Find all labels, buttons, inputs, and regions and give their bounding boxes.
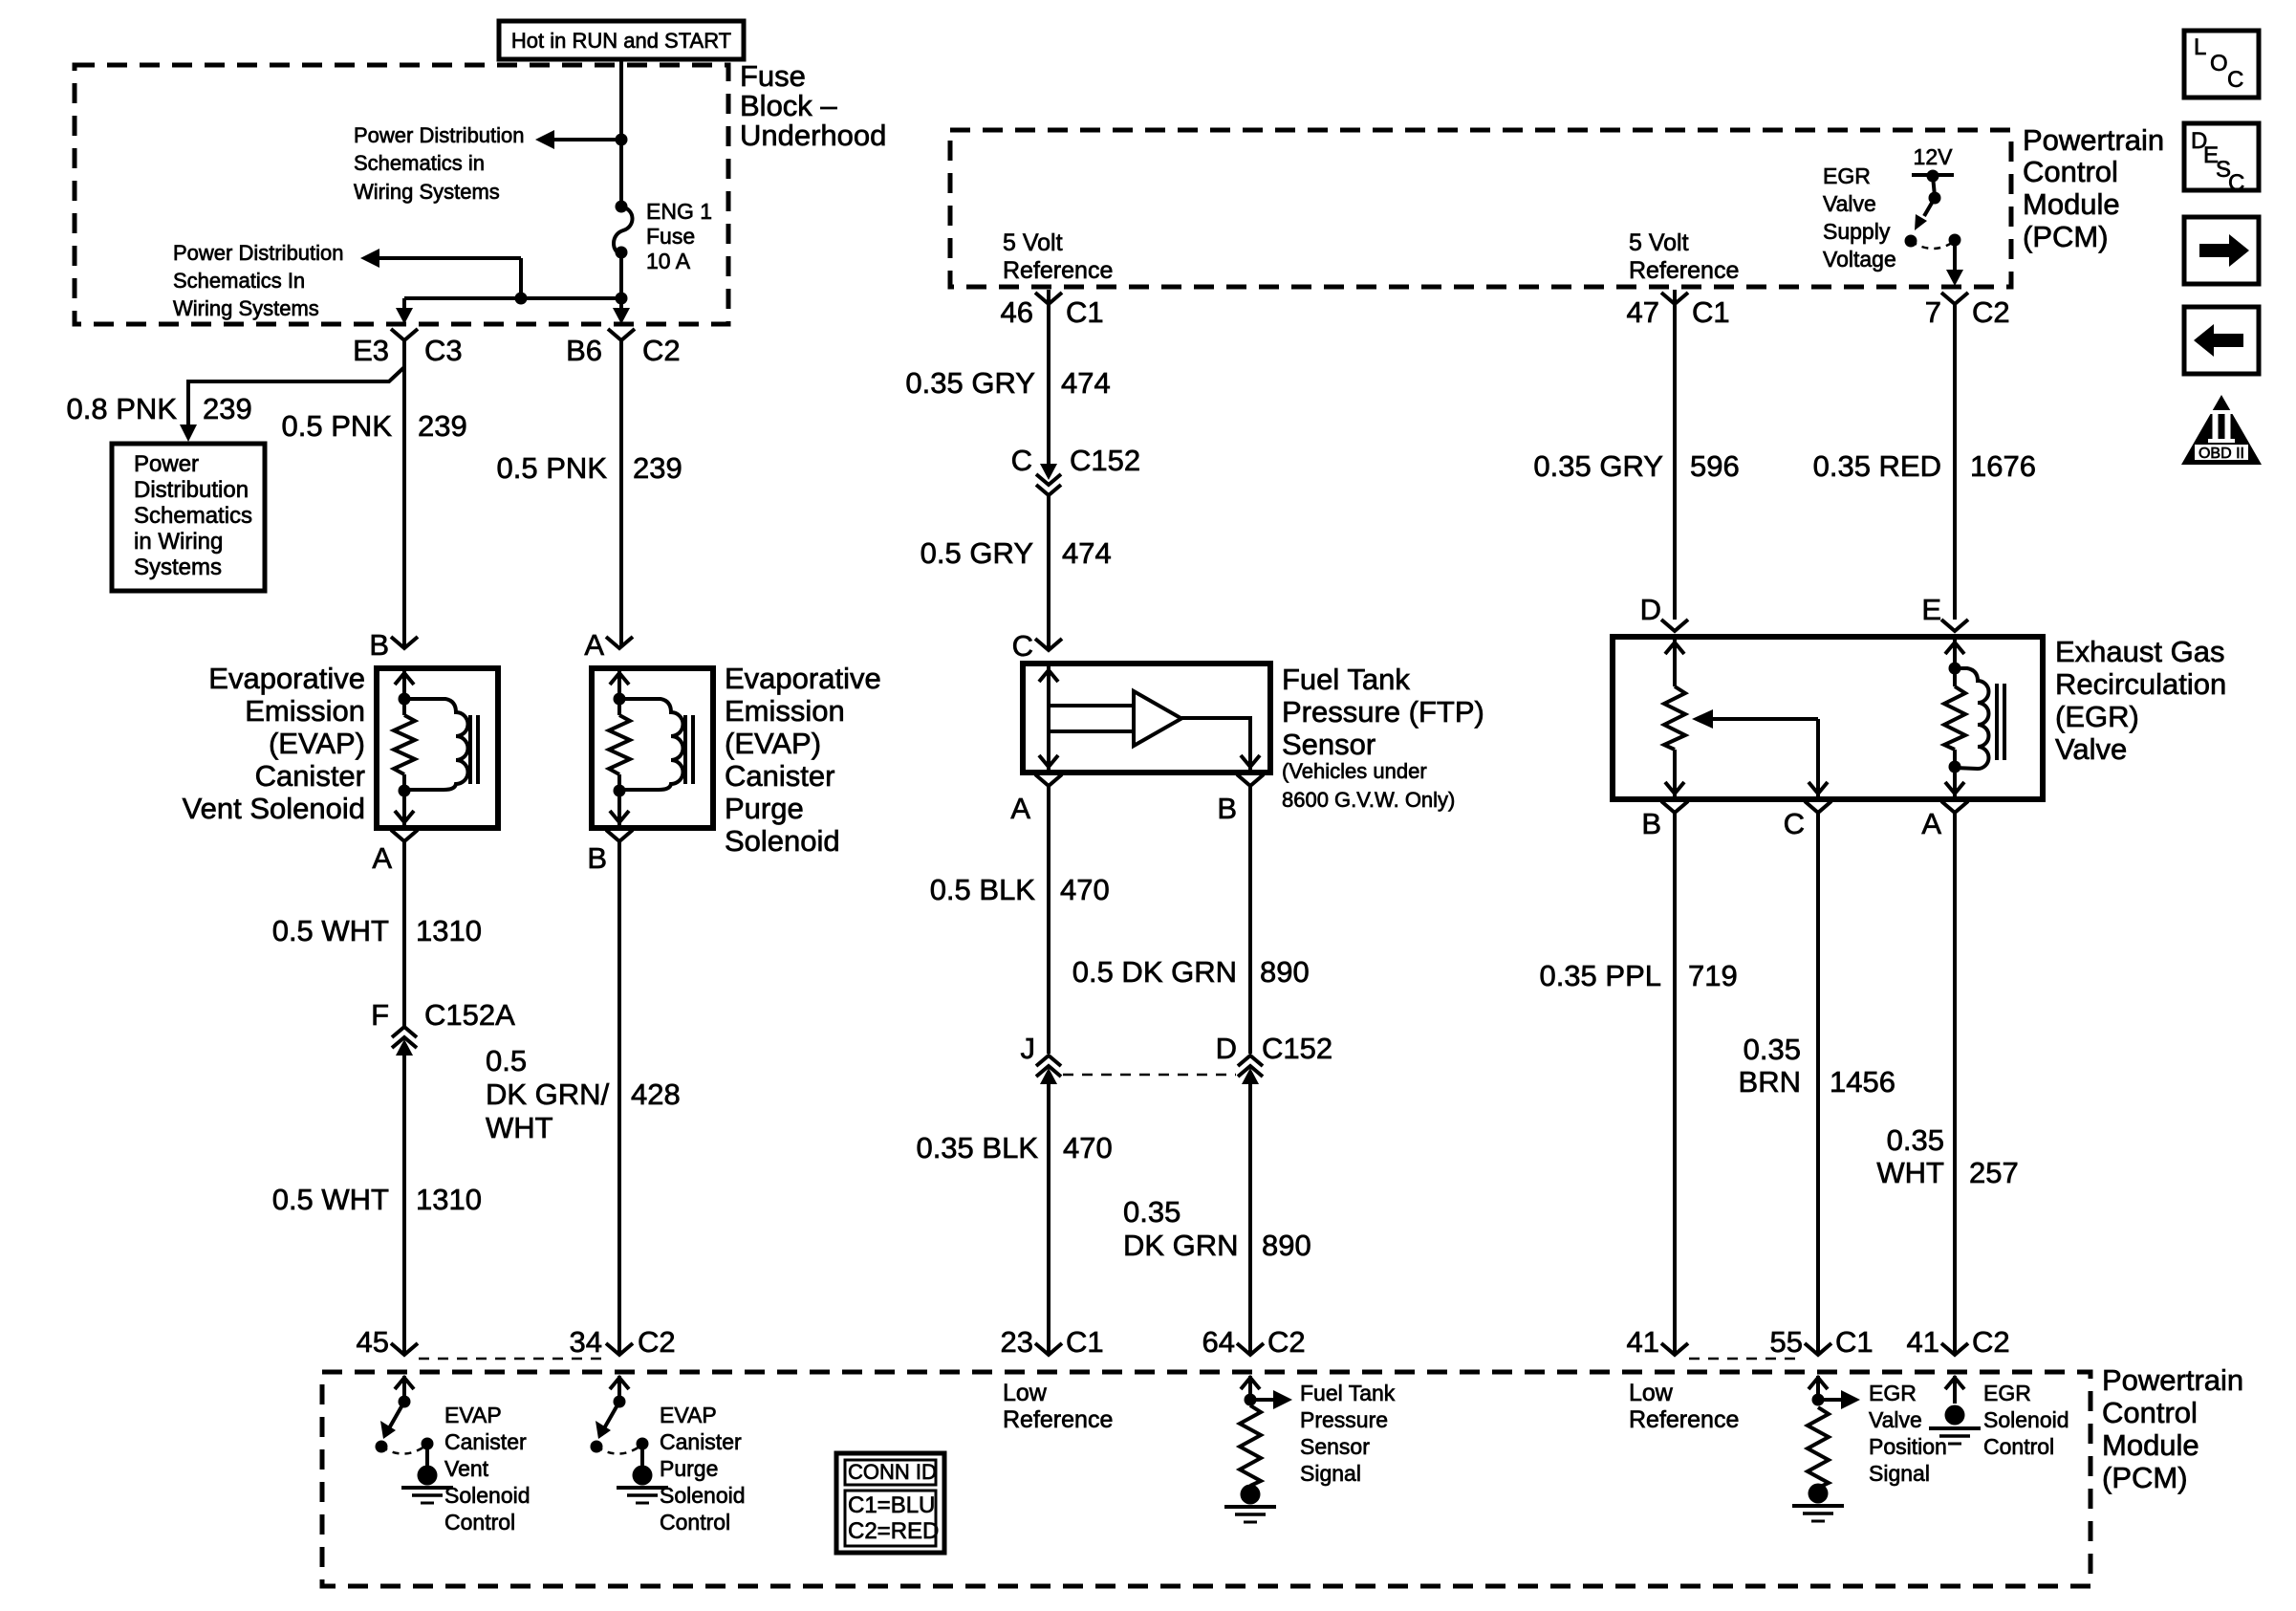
svg-text:1310: 1310 [416,1183,482,1216]
svg-text:Vent Solenoid: Vent Solenoid [183,792,365,825]
svg-text:C1: C1 [1692,295,1730,329]
svg-text:Distribution: Distribution [134,477,249,503]
svg-text:(PCM): (PCM) [2102,1461,2188,1494]
svg-text:C1: C1 [1835,1325,1874,1359]
wire 890 lower [1248,1078,1252,1355]
potentiometer EGR position [1664,637,1685,799]
svg-text:B6: B6 [566,334,602,367]
icon LOC [2184,31,2259,98]
svg-text:Schematics in: Schematics in [354,151,485,175]
svg-text:596: 596 [1690,449,1740,483]
component label Powertrain Control Module (PCM) bottom [2102,1363,2243,1494]
svg-text:E: E [1921,593,1941,626]
svg-text:0.35 PPL: 0.35 PPL [1539,959,1661,992]
svg-text:C: C [1012,629,1033,663]
svg-text:10 A: 10 A [646,249,691,273]
node Hot in RUN and START [499,21,744,59]
PCM bottom dashed box [322,1372,2090,1586]
svg-text:Canister: Canister [725,759,834,793]
power 12V supply [1912,144,1954,183]
svg-text:CONN ID: CONN ID [848,1460,937,1484]
pin 34 C2 connector [570,1325,676,1359]
svg-text:Power Distribution: Power Distribution [354,123,525,147]
svg-text:Pressure (FTP): Pressure (FTP) [1282,695,1484,729]
svg-text:Vent: Vent [444,1456,489,1481]
pin E EGR valve [1921,593,1968,631]
svg-text:Valve: Valve [1823,191,1876,216]
svg-text:C1: C1 [1066,295,1104,329]
svg-text:(EGR): (EGR) [2055,700,2139,733]
svg-text:Purge: Purge [660,1456,718,1481]
wire 1310 upper [402,841,406,1026]
svg-text:C1: C1 [1066,1325,1104,1359]
wire bus inside fuse block [404,296,621,300]
svg-text:Evaporative: Evaporative [208,662,365,695]
resistor FTP sensor signal input [1240,1376,1292,1505]
svg-text:C2: C2 [1267,1325,1306,1359]
resistor EGR valve position signal input [1808,1376,1860,1504]
svg-text:7: 7 [1925,295,1941,329]
svg-text:Reference: Reference [1629,1406,1739,1433]
svg-text:Control: Control [2102,1396,2198,1429]
node Power Distribution Schematics box [112,444,265,591]
dashed connector link J to D [1063,1074,1236,1077]
svg-text:0.35: 0.35 [1744,1033,1801,1066]
fuse ENG 1 Fuse 10 A [614,199,712,273]
pin A vent solenoid [372,830,418,875]
net EVAP Canister Purge Solenoid Control [660,1403,746,1535]
svg-text:in Wiring: in Wiring [134,529,223,555]
pin 41 connector left [1627,1325,1688,1359]
svg-text:Emission: Emission [245,694,365,728]
solenoid EVAP canister vent [377,668,498,828]
label 0.35 PPL 719 [1539,959,1737,992]
svg-text:O: O [2210,51,2228,76]
svg-text:Canister: Canister [444,1429,527,1454]
svg-text:Reference: Reference [1003,1406,1113,1433]
svg-text:EGR: EGR [1823,163,1871,188]
net 5 Volt Reference (right) [1629,229,1739,284]
svg-text:C: C [1011,444,1032,477]
pin 45 connector [357,1325,418,1359]
wire 890 upper [1248,786,1252,1054]
ground EGR position signal [1792,1506,1844,1521]
svg-text:239: 239 [633,451,682,485]
svg-text:Powertrain: Powertrain [2102,1363,2243,1397]
driver EGR solenoid control [1945,1376,1965,1426]
svg-text:Solenoid: Solenoid [444,1483,531,1508]
svg-text:23: 23 [1001,1325,1033,1359]
switch EGR supply inside PCM [1905,176,1961,249]
net EGR Valve Position Signal [1869,1381,1947,1486]
svg-text:Hot in RUN and START: Hot in RUN and START [511,29,731,53]
svg-text:0.5: 0.5 [486,1044,527,1078]
svg-text:C152A: C152A [424,998,515,1032]
svg-text:Supply: Supply [1823,219,1891,244]
svg-text:474: 474 [1062,536,1112,570]
pin A FTP sensor [1010,774,1062,825]
svg-text:Position: Position [1869,1434,1947,1459]
pin 7 C2 connector [1925,293,2010,329]
node Power Distribution Schematics in Wiring Systems (upper) [354,123,525,204]
component label Fuel Tank Pressure (FTP) Sensor [1282,663,1484,812]
pin E3 C3 connector [353,329,463,367]
wire 12V switch to pin 7 [1946,240,1963,286]
dashed connector link 41 to 55 [1689,1358,1803,1361]
svg-text:0.5 DK GRN: 0.5 DK GRN [1072,955,1237,989]
svg-text:Low: Low [1629,1380,1674,1406]
svg-text:C152: C152 [1070,444,1140,477]
svg-text:F: F [371,998,389,1032]
svg-text:C3: C3 [424,334,463,367]
net Low Reference (left) [1003,1380,1113,1433]
svg-text:Block –: Block – [740,89,837,122]
valve EGR box [1613,637,2043,799]
svg-text:(EVAP): (EVAP) [269,727,365,760]
node Power Distribution Schematics In Wiring Systems (lower) [173,241,344,320]
ground EVAP purge control [617,1488,668,1503]
svg-text:Schematics: Schematics [134,503,252,529]
svg-text:BRN: BRN [1739,1065,1801,1099]
pin A EGR valve [1921,801,1968,840]
connector C152A pin F [371,998,515,1056]
svg-text:Evaporative: Evaporative [725,662,881,695]
svg-text:0.5 BLK: 0.5 BLK [930,873,1036,906]
svg-text:Fuse: Fuse [646,224,695,249]
pin B FTP sensor [1217,774,1264,825]
svg-text:EVAP: EVAP [660,1403,717,1427]
svg-text:Power Distribution: Power Distribution [173,241,344,265]
svg-text:EGR: EGR [1869,1381,1917,1405]
wire 719 [1673,813,1677,1355]
icon DESC [2184,123,2259,196]
svg-text:(EVAP): (EVAP) [725,727,821,760]
svg-text:Power: Power [134,451,199,477]
svg-text:Control: Control [1983,1434,2054,1459]
svg-text:0.5 WHT: 0.5 WHT [272,1183,389,1216]
svg-text:12V: 12V [1914,144,1954,169]
pin 55 C1 connector [1770,1325,1874,1359]
wire 239 E3 down to vent solenoid [402,340,406,646]
svg-text:Sensor: Sensor [1300,1434,1370,1459]
svg-text:L: L [2194,34,2206,60]
wire 239 B6 down to purge solenoid [619,340,623,646]
svg-text:470: 470 [1063,1131,1113,1165]
wire exit arrow E3 [396,298,413,324]
svg-text:Exhaust Gas: Exhaust Gas [2055,635,2224,668]
switch EVAP purge solenoid control driver [591,1376,653,1486]
svg-text:Module: Module [2102,1428,2199,1462]
svg-text:1676: 1676 [1970,449,2036,483]
svg-text:1456: 1456 [1830,1065,1895,1099]
svg-text:Voltage: Voltage [1823,247,1896,272]
svg-text:Low: Low [1003,1380,1048,1406]
svg-text:EVAP: EVAP [444,1403,502,1427]
svg-text:(Vehicles under: (Vehicles under [1282,759,1427,783]
svg-text:(PCM): (PCM) [2023,220,2109,253]
svg-text:34: 34 [570,1325,602,1359]
pin B purge solenoid [587,830,633,875]
svg-text:Pressure: Pressure [1300,1407,1388,1432]
pin 46 C1 connector [1001,290,1104,329]
svg-text:WHT: WHT [1876,1156,1944,1189]
wire 1456 [1816,813,1820,1355]
svg-text:OBD II: OBD II [2199,446,2244,462]
label 0.35 DK GRN 890 lower [1123,1195,1311,1262]
svg-text:B: B [1217,792,1237,825]
wire 470 upper [1047,786,1051,1054]
svg-text:Canister: Canister [660,1429,742,1454]
svg-text:64: 64 [1202,1325,1235,1359]
svg-text:E3: E3 [353,334,389,367]
ground FTP signal [1224,1507,1276,1522]
svg-text:Wiring Systems: Wiring Systems [354,180,500,204]
legend CONN ID box [836,1453,944,1553]
svg-text:Fuse: Fuse [740,59,806,93]
svg-text:Reference: Reference [1629,257,1739,284]
label 0.35 GRY 596 [1533,449,1739,483]
pin B EGR valve [1641,801,1688,840]
wire arrow to Power Distribution Schematics (lower) [360,249,521,298]
label 0.5 PNK 239 wire E3 [282,409,467,443]
svg-text:C2=RED: C2=RED [848,1518,939,1544]
svg-text:Control: Control [660,1510,730,1535]
label 0.35 GRY 474 [905,366,1110,400]
svg-text:Solenoid: Solenoid [660,1483,746,1508]
solenoid EVAP canister purge [592,668,713,828]
pin 23 C1 connector [1001,1325,1104,1359]
svg-text:Purge: Purge [725,792,804,825]
svg-text:C2: C2 [1972,295,2010,329]
svg-text:WHT: WHT [486,1111,553,1144]
svg-text:Wiring Systems: Wiring Systems [173,296,319,320]
pin D EGR valve [1640,593,1688,631]
wire exit arrow B6 [613,298,630,324]
svg-text:Systems: Systems [134,555,222,580]
svg-text:Solenoid: Solenoid [725,824,840,858]
pin 47 C1 connector [1627,290,1730,329]
svg-text:Signal: Signal [1300,1461,1361,1486]
ground EVAP vent control [401,1488,453,1503]
svg-text:A: A [372,841,392,875]
svg-text:C: C [2228,170,2244,196]
svg-text:47: 47 [1627,295,1659,329]
pin C FTP sensor [1012,629,1062,663]
svg-text:Valve: Valve [2055,732,2127,766]
svg-text:Module: Module [2023,187,2120,221]
svg-text:45: 45 [357,1325,389,1359]
svg-text:0.5 WHT: 0.5 WHT [272,914,389,947]
svg-text:C: C [2227,67,2243,93]
net EGR Solenoid Control [1983,1381,2069,1459]
label 0.5 DK GRN 890 [1072,955,1310,989]
wire arrow to Power Distribution Schematics (upper) [535,130,621,149]
svg-text:Solenoid: Solenoid [1983,1407,2069,1432]
label 0.5 DK GRN/WHT 428 [486,1044,681,1144]
svg-text:470: 470 [1060,873,1110,906]
wire from Hot in RUN to fuse ENG 1 [619,59,623,204]
svg-text:D: D [1640,593,1661,626]
svg-text:890: 890 [1262,1229,1311,1262]
svg-text:C: C [1784,807,1805,840]
pin C EGR valve [1784,801,1831,840]
switch EVAP vent solenoid control driver [376,1376,438,1486]
net Fuel Tank Pressure Sensor Signal [1300,1381,1396,1486]
ground EGR solenoid control [1929,1428,1981,1444]
svg-text:Recirculation: Recirculation [2055,667,2226,701]
wire 1676 from pin 7 to EGR [1953,304,1957,620]
wire 1310 lower [402,1050,406,1355]
svg-text:0.35 RED: 0.35 RED [1813,449,1941,483]
icon arrow left [2184,307,2259,374]
svg-text:41: 41 [1907,1325,1939,1359]
svg-text:Control: Control [444,1510,515,1535]
component label EVAP canister vent solenoid [183,662,365,825]
component label Powertrain Control Module (PCM) top [2023,123,2164,253]
pin A purge solenoid [584,628,633,662]
svg-text:B: B [587,841,607,875]
PCM top dashed box [950,130,2011,287]
svg-text:55: 55 [1770,1325,1803,1359]
svg-text:Fuel Tank: Fuel Tank [1300,1381,1396,1405]
svg-text:B: B [369,628,389,662]
svg-text:0.35: 0.35 [1887,1123,1944,1157]
component label EVAP canister purge solenoid [725,662,881,858]
pin B vent solenoid [369,628,418,662]
component label Fuse Block - Underhood [740,59,886,152]
svg-text:Canister: Canister [255,759,365,793]
label 0.5 PNK 239 wire B6 [497,451,682,485]
svg-text:890: 890 [1260,955,1310,989]
svg-text:ENG 1: ENG 1 [646,199,712,224]
wire 474 from pin 46 [1047,304,1051,465]
svg-text:DK GRN/: DK GRN/ [486,1078,610,1111]
sensor Fuel Tank Pressure (FTP) [1023,664,1270,773]
label 0.35 BRN 1456 [1739,1033,1895,1099]
svg-text:474: 474 [1061,366,1111,400]
wire 470 lower [1047,1078,1051,1355]
svg-text:5 Volt: 5 Volt [1003,229,1063,256]
svg-text:Schematics In: Schematics In [173,269,305,293]
component label Exhaust Gas Recirculation (EGR) Valve [2055,635,2226,766]
svg-text:0.35: 0.35 [1123,1195,1180,1229]
wire 257 [1953,813,1957,1355]
wire 474 from C152 to FTP sensor [1047,493,1051,648]
label 0.8 PNK 239 [67,392,252,425]
svg-text:DK GRN: DK GRN [1123,1229,1239,1262]
svg-text:0.5 PNK: 0.5 PNK [497,451,608,485]
svg-text:Underhood: Underhood [740,119,886,152]
junction on feed wire [616,134,628,146]
svg-text:41: 41 [1627,1325,1659,1359]
wire branch 0.8 PNK 239 to power distribution [180,367,404,442]
svg-text:0.5 PNK: 0.5 PNK [282,409,393,443]
fuse block dashed box [75,65,728,324]
svg-text:Control: Control [2023,155,2118,188]
label 0.5 WHT 1310 [272,914,482,947]
svg-text:C2: C2 [642,334,681,367]
wire 596 from pin 47 to EGR [1673,304,1677,620]
svg-text:0.8 PNK: 0.8 PNK [67,392,178,425]
wire fuse to junction [619,252,623,298]
net EVAP Canister Vent Solenoid Control [444,1403,531,1535]
svg-text:0.35 BLK: 0.35 BLK [916,1131,1038,1165]
svg-text:C152: C152 [1262,1032,1332,1065]
svg-text:Signal: Signal [1869,1461,1930,1486]
pin B6 C2 connector [566,329,681,367]
svg-text:0.35 GRY: 0.35 GRY [1533,449,1663,483]
dashed connector link 45 to 34 [419,1358,604,1361]
svg-text:46: 46 [1001,295,1033,329]
svg-text:Emission: Emission [725,694,845,728]
svg-text:239: 239 [203,392,252,425]
label 0.5 GRY 474 [921,536,1112,570]
svg-text:1310: 1310 [416,914,482,947]
label 0.35 WHT 257 [1876,1123,2018,1189]
net 5 Volt Reference (left) [1003,229,1113,284]
svg-text:0.5 GRY: 0.5 GRY [921,536,1033,570]
svg-text:428: 428 [631,1078,681,1111]
svg-text:0.35 GRY: 0.35 GRY [905,366,1035,400]
svg-text:C2: C2 [638,1325,676,1359]
label 0.35 BLK 470 [916,1131,1112,1165]
label 0.5 WHT 1310 lower [272,1183,482,1216]
svg-text:Reference: Reference [1003,257,1113,284]
icon arrow right [2184,217,2259,284]
svg-text:C1=BLU: C1=BLU [848,1492,935,1518]
label 0.35 RED 1676 [1813,449,2036,483]
svg-text:D: D [1216,1032,1237,1065]
svg-text:Powertrain: Powertrain [2023,123,2164,157]
svg-text:257: 257 [1969,1156,2019,1189]
net EGR Valve Supply Voltage [1823,163,1896,272]
svg-text:Fuel Tank: Fuel Tank [1282,663,1410,696]
wire 428 [617,841,621,1355]
connector C152 pin D [1216,1032,1333,1084]
svg-text:A: A [1010,792,1030,825]
net Low Reference (right) [1629,1380,1739,1433]
svg-text:A: A [584,628,604,662]
connector C152 pin J [1021,1032,1062,1084]
svg-text:239: 239 [418,409,467,443]
svg-text:C2: C2 [1972,1325,2010,1359]
svg-text:8600 G.V.W. Only): 8600 G.V.W. Only) [1282,788,1455,812]
svg-text:719: 719 [1688,959,1738,992]
wiper arrow EGR position [1692,709,1828,799]
svg-text:A: A [1921,807,1941,840]
svg-text:EGR: EGR [1983,1381,2031,1405]
svg-text:Sensor: Sensor [1282,728,1375,761]
connector C152 pin C [1011,444,1141,495]
pin 64 C2 connector [1202,1325,1306,1359]
svg-text:B: B [1641,807,1661,840]
icon OBD II triangle [2181,395,2262,465]
solenoid coil EGR valve [1944,637,2004,799]
svg-text:5 Volt: 5 Volt [1629,229,1689,256]
svg-text:Valve: Valve [1869,1407,1922,1432]
label 0.5 BLK 470 [930,873,1110,906]
pin 41 C2 connector [1907,1325,2010,1359]
svg-text:J: J [1021,1032,1036,1065]
